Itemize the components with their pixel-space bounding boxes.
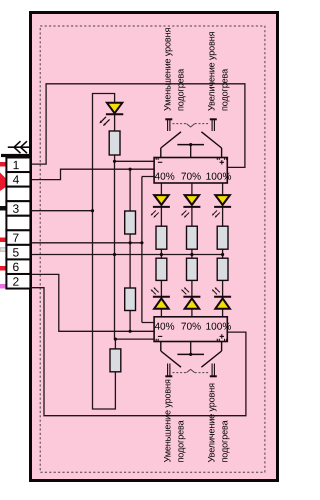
- svg-text:подогрева: подогрева: [220, 68, 230, 111]
- connector cell pin 6: [6, 259, 30, 274]
- wire HL1 cathode to R1: [114, 114, 116, 161]
- svg-text:40%: 40%: [154, 322, 174, 333]
- U2 pin label plus: [217, 334, 226, 341]
- wire top LED column 2: [191, 183, 193, 255]
- resistor R3: [156, 226, 167, 249]
- resistor R1: [109, 131, 120, 155]
- switch linkage top (dashed): [173, 124, 210, 127]
- wire stub pin7 (red): [0, 238, 6, 243]
- U1 pin label minus: [156, 158, 162, 163]
- switch SA1 (decrease) top: [161, 119, 181, 157]
- wire bottom LED column 3: [222, 255, 224, 317]
- LED HL5: [151, 287, 170, 309]
- wire pin1 to top rail to plus of U1: [31, 84, 245, 168]
- svg-text:100%: 100%: [206, 322, 232, 333]
- wire stub pin6 (red): [0, 266, 6, 271]
- junction bus5 col1: [160, 253, 163, 256]
- svg-text:3: 3: [13, 202, 20, 216]
- wire stub pin4 (red arrow): [0, 173, 11, 192]
- switch SA2 (increase) top: [201, 119, 221, 157]
- svg-text:6: 6: [13, 260, 20, 274]
- connector cell pin 5: [6, 245, 30, 260]
- connector X1 cells: [6, 158, 30, 289]
- resistor R4: [187, 226, 198, 249]
- junction switch common bottom: [189, 353, 192, 356]
- LED HL7: [212, 287, 231, 309]
- wire node A vertical x114.5 with stubs to U1 and U2: [115, 161, 155, 339]
- controller box U2: [154, 317, 227, 342]
- LED HL3: [181, 195, 200, 218]
- switch SA2 (increase) bottom: [201, 342, 221, 377]
- connector cell pin 7: [6, 230, 30, 245]
- junction R1/U1 stub: [113, 160, 116, 163]
- svg-text:подогрева: подогрева: [175, 68, 185, 111]
- wire stub pin2 (magenta): [0, 284, 6, 289]
- switch SA1 (decrease) bottom: [161, 342, 181, 377]
- LED HL4: [212, 195, 231, 218]
- wire stub pin3 (black): [0, 206, 6, 211]
- svg-text:подогрева: подогрева: [175, 419, 185, 462]
- resistor R5: [217, 226, 228, 249]
- svg-text:Увеличение уровня: Увеличение уровня: [207, 31, 217, 111]
- wire top LED column 3: [222, 183, 224, 255]
- wire stub pin1 (red): [0, 162, 6, 167]
- schematic frame: [31, 13, 278, 481]
- U2 pin label minus: [156, 336, 162, 341]
- svg-text:Уменьшение уровня: Уменьшение уровня: [162, 379, 172, 462]
- controller box U1: [154, 158, 227, 184]
- U1 pin label plus: [217, 158, 226, 165]
- wire pin4 to U1 minus stub: [31, 169, 154, 179]
- resistor R11: [217, 258, 228, 280]
- connector cell blank A: [6, 187, 30, 202]
- svg-text:40%: 40%: [155, 172, 175, 183]
- connector cell pin 2: [6, 274, 30, 289]
- dashed inner border: [40, 26, 265, 472]
- svg-text:70%: 70%: [181, 322, 201, 333]
- resistor R7: [125, 288, 136, 311]
- junction bus5/R1 chain: [113, 253, 116, 256]
- switch common top: [177, 145, 204, 158]
- wire pin6: [31, 274, 154, 331]
- LED HL6: [181, 287, 200, 309]
- svg-text:2: 2: [13, 275, 20, 289]
- junction switch common top: [189, 143, 192, 146]
- wire x142 vertical U1 to U2: [142, 177, 154, 323]
- connector X1 top bar: [1, 154, 30, 157]
- wire bus pin5: [31, 254, 223, 256]
- svg-text:Уменьшение уровня: Уменьшение уровня: [162, 28, 172, 111]
- wire middle chain R2 R7: [129, 169, 131, 331]
- wire HL1 chain outline x92.5: [93, 94, 116, 410]
- connector cell pin 4: [6, 172, 30, 187]
- LED HL1: [99, 103, 123, 126]
- junction dots: [91, 143, 224, 356]
- wire bottom LED column 1: [160, 255, 162, 317]
- wire bus pin7: [31, 242, 142, 244]
- LED HL2: [151, 195, 170, 218]
- wire stub pin5 (white): [0, 248, 6, 251]
- wire bottom LED column 2: [191, 255, 193, 317]
- wire pin3: [31, 210, 93, 212]
- junction bus7/U1-U2 link: [140, 241, 143, 244]
- svg-text:1: 1: [13, 158, 20, 172]
- svg-text:7: 7: [13, 231, 20, 245]
- junction pin3 tee: [91, 209, 94, 212]
- connector pin numbers: [13, 158, 20, 289]
- resistor R9: [156, 258, 167, 280]
- svg-text:70%: 70%: [181, 172, 201, 183]
- wire pin2 to bottom rail to plus of U2: [31, 288, 246, 416]
- svg-text:100%: 100%: [206, 172, 232, 183]
- connector symbol chevron: [8, 141, 30, 153]
- junction R8/U2 stub: [114, 338, 117, 341]
- resistor R2: [125, 211, 136, 234]
- junction pin6 line/R7: [129, 330, 132, 333]
- svg-text:5: 5: [13, 245, 20, 259]
- junction bus5 col3: [221, 253, 224, 256]
- switch linkage bottom (dashed): [173, 369, 210, 372]
- junction pin4/R2: [129, 168, 132, 171]
- svg-text:Увеличение уровня: Увеличение уровня: [207, 383, 217, 463]
- svg-text:подогрева: подогрева: [220, 419, 230, 462]
- connector cell blank B: [6, 216, 30, 231]
- resistor R10: [187, 258, 198, 280]
- junction bus5 col2: [190, 253, 193, 256]
- switch common bottom: [177, 342, 204, 355]
- svg-text:4: 4: [13, 173, 20, 187]
- resistor R8: [110, 349, 121, 372]
- junction bus7/R2-R7: [129, 241, 132, 244]
- wire top LED column 1: [160, 183, 162, 255]
- connector cell pin 1: [6, 158, 30, 173]
- connector cell pin 3: [6, 201, 30, 216]
